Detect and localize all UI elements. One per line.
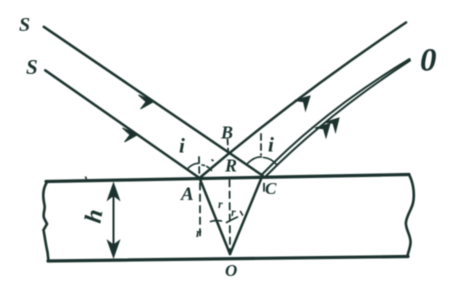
reflected ray from A (single, through B) xyxy=(200,23,407,179)
svg-text:i: i xyxy=(179,134,185,158)
small arc at A (right of normal) xyxy=(202,165,212,171)
vertical dashed line B to surface (through R) xyxy=(227,139,230,154)
slab right wavy edge xyxy=(406,175,414,257)
svg-text:i: i xyxy=(268,133,274,157)
short dash below C xyxy=(263,184,265,192)
svg-text:r: r xyxy=(196,225,202,240)
svg-text:S: S xyxy=(19,14,30,36)
refracted ray A to O xyxy=(200,178,231,254)
incident ray S2 to A xyxy=(45,70,199,178)
incident ray S1 to C xyxy=(44,27,263,176)
arrowhead on ray S1 xyxy=(139,95,155,109)
speck above surface xyxy=(86,177,87,181)
normal (dashed) above C xyxy=(260,134,262,155)
normal (dashed) above A xyxy=(198,157,200,174)
svg-text:h: h xyxy=(81,207,109,225)
svg-text:0: 0 xyxy=(420,43,437,79)
slab left wavy edge xyxy=(43,182,48,261)
normal (dashed) below A xyxy=(199,183,201,238)
arrowhead on ray S2 xyxy=(123,128,139,142)
angle i arc at A (left of normal) xyxy=(187,163,198,169)
slab bottom surface xyxy=(48,257,408,262)
internal ray O to C xyxy=(230,176,263,255)
h dimension arrow (double headed) xyxy=(113,195,115,246)
slab top surface xyxy=(46,175,409,182)
svg-text:S: S xyxy=(26,55,38,79)
outgoing double ray from C (upper stroke) xyxy=(262,59,410,175)
arrowhead on reflected ray xyxy=(295,96,311,111)
svg-text:O: O xyxy=(225,261,237,280)
svg-text:C: C xyxy=(265,179,277,198)
svg-text:r: r xyxy=(218,197,223,211)
vertical dashed line below surface to O xyxy=(229,180,232,250)
svg-text:R: R xyxy=(224,156,237,176)
double arrowhead on double ray xyxy=(315,124,330,138)
angle i arc at C (right of normal) xyxy=(264,158,277,165)
outgoing double ray from C (lower stroke) xyxy=(265,61,411,178)
small tick right of BO line xyxy=(241,212,243,216)
svg-text:A: A xyxy=(180,184,194,205)
svg-text:r: r xyxy=(231,205,236,219)
svg-text:B: B xyxy=(220,123,233,143)
angle i arc at C (left of normal) xyxy=(247,157,262,165)
angle r arcs at O inside plate xyxy=(227,217,238,223)
speck near reflected ray xyxy=(212,160,214,162)
angle r arc at A inside plate xyxy=(211,220,222,223)
